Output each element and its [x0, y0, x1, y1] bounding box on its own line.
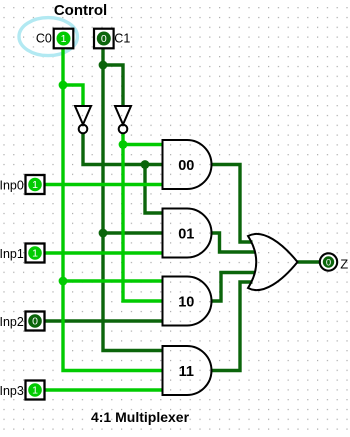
wire C0 branch to inverter U1 input — [63, 85, 83, 106]
wire C1 branch to inverter U2 input — [103, 65, 123, 106]
svg-text:11: 11 — [179, 364, 194, 380]
wire Inp1 to AND 01 bottom — [45, 251, 163, 254]
wire C0 branch to AND 10 top — [63, 279, 163, 282]
junction C1 to AND 01 — [99, 229, 108, 238]
svg-text:C0: C0 — [36, 31, 52, 45]
wire AND 11 output to OR input 4 — [212, 282, 253, 371]
wire C1 vertical bus — [103, 49, 163, 351]
svg-text:00: 00 — [178, 158, 194, 174]
inverter U1 (NOT C0) — [75, 106, 91, 133]
svg-text:1: 1 — [32, 248, 38, 260]
junction C0' riser — [141, 160, 150, 169]
pin Inp1 — [26, 244, 45, 263]
svg-text:Inp2: Inp2 — [0, 315, 24, 329]
AND gate 10 — [163, 277, 212, 326]
svg-text:0: 0 — [326, 258, 331, 269]
svg-text:Z: Z — [340, 257, 348, 272]
svg-text:Inp3: Inp3 — [0, 384, 24, 398]
pin Inp2 — [26, 312, 45, 331]
svg-text:10: 10 — [178, 295, 194, 311]
AND gate 11 — [163, 346, 212, 395]
svg-text:Control: Control — [54, 2, 107, 19]
pin Z (output) — [320, 253, 337, 270]
inverter U2 (NOT C1) — [115, 106, 131, 133]
svg-text:1: 1 — [32, 179, 38, 191]
svg-text:1: 1 — [61, 33, 67, 45]
pin C1 — [94, 29, 114, 49]
wire Inp3 to AND 11 bottom — [45, 388, 163, 391]
junction C0 to AND 10 — [59, 277, 68, 286]
pin C0 — [54, 29, 74, 49]
wire Inp2 to AND 10 bottom — [45, 319, 163, 322]
wire inverter U2 output down to AND 10 middle — [123, 134, 163, 302]
svg-text:1: 1 — [32, 385, 38, 397]
wire C0 vertical bus — [63, 49, 163, 371]
OR gate U3 — [248, 234, 298, 290]
wire AND 01 output to OR input 2 — [212, 233, 256, 252]
wire AND 10 output to OR input 3 — [212, 273, 256, 302]
wire inverter U1 output to AND 00 middle — [83, 134, 163, 165]
junction C1/inverter branch — [99, 61, 108, 70]
svg-text:C1: C1 — [114, 31, 130, 45]
pin Inp0 — [26, 175, 45, 194]
wire AND 00 output to OR input 1 — [212, 165, 253, 243]
svg-text:4:1 Multiplexer: 4:1 Multiplexer — [91, 409, 190, 425]
svg-text:0: 0 — [101, 33, 107, 45]
pin Inp3 — [26, 381, 45, 400]
wire C0' riser to AND 01 top — [145, 165, 163, 214]
AND gate 00 — [163, 140, 212, 189]
AND gate 01 — [163, 209, 212, 258]
wire OR output to pin Z — [298, 260, 320, 263]
junction C1' to AND 00 — [119, 140, 128, 149]
svg-text:Inp1: Inp1 — [0, 247, 24, 261]
junction C0/inverter branch — [59, 81, 68, 90]
svg-text:0: 0 — [32, 316, 38, 328]
wire C1' branch to AND 00 top — [123, 143, 163, 146]
wire Inp0 to AND 00 bottom — [45, 183, 163, 186]
wire C1 branch to AND 01 middle — [103, 231, 163, 234]
svg-text:01: 01 — [178, 227, 194, 243]
highlight oval around C0 — [19, 18, 77, 56]
svg-text:Inp0: Inp0 — [0, 179, 24, 193]
